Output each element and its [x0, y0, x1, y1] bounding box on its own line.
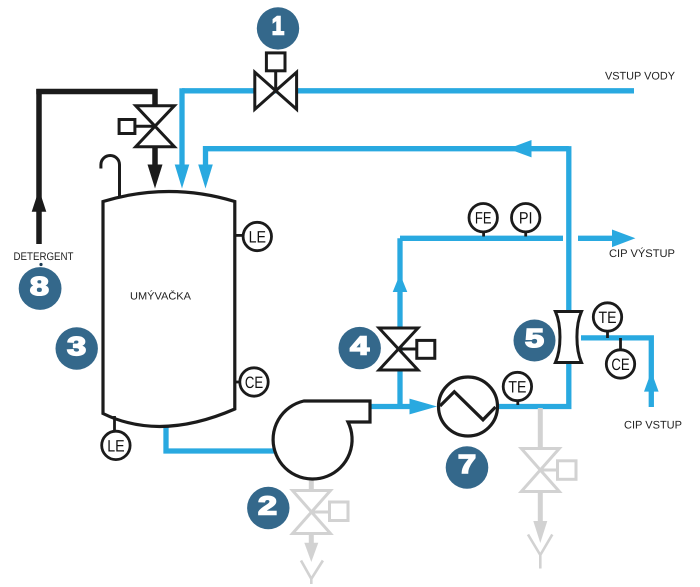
wire: tank outlet to pump — [166, 424, 276, 451]
arrow: gray drain down — [304, 543, 318, 562]
svg-text:CE: CE — [611, 356, 629, 374]
tag 8 — [19, 267, 62, 310]
svg-text:CE: CE — [245, 374, 263, 392]
tag 5 — [514, 320, 556, 362]
svg-text:8: 8 — [30, 271, 49, 301]
valve V4 (CIP branch valve) — [379, 328, 435, 370]
wire: valve V4 branch riser — [397, 238, 402, 409]
wire: gray drain stem below pump — [309, 478, 314, 491]
valve: gray drain valve right — [521, 449, 576, 492]
wire: return line horizontal — [206, 146, 569, 151]
svg-text:5: 5 — [525, 323, 544, 353]
instrument CE on tank — [235, 368, 268, 396]
svg-text:UMÝVAČKA: UMÝVAČKA — [130, 290, 191, 303]
svg-text:7: 7 — [458, 449, 476, 479]
tag 1 — [257, 7, 299, 49]
instrument FE (flow element) — [469, 204, 497, 237]
wire: return line drop to tank — [203, 146, 208, 170]
wire: drop to detergent valve — [152, 89, 158, 105]
wire: detergent riser — [36, 89, 42, 244]
instrument LE top (level element) — [235, 222, 272, 250]
wire: CIP inlet riser — [581, 338, 651, 407]
wire: CIP outlet line right part — [578, 236, 614, 241]
wire: detergent top run — [36, 89, 157, 95]
svg-text:PI: PI — [519, 210, 533, 228]
tag 3 — [55, 327, 97, 369]
arrow: gray right drain down — [533, 521, 547, 543]
valve V1 (water inlet control valve) — [255, 53, 297, 109]
wire: CIP outlet line left part — [400, 236, 563, 241]
svg-text:CIP VÝSTUP: CIP VÝSTUP — [609, 247, 675, 260]
wire: water line drop to tank — [179, 88, 184, 170]
svg-text:4: 4 — [350, 331, 370, 361]
node: dot above tag 8 — [39, 263, 42, 266]
arrow: CIP VSTUP up — [644, 372, 659, 392]
svg-text:1: 1 — [272, 11, 285, 41]
arrow: water into tank — [175, 165, 190, 189]
drain funnel under pump — [301, 561, 323, 585]
pump P2 — [273, 401, 370, 479]
valve: gray drain valve under pump — [293, 491, 349, 534]
svg-text:TE: TE — [508, 379, 526, 397]
drain funnel right — [528, 535, 552, 569]
svg-text:VSTUP VODY: VSTUP VODY — [605, 70, 676, 82]
svg-text:TE: TE — [599, 309, 617, 327]
heat exchanger E7 — [439, 377, 498, 436]
tag 4 — [339, 327, 381, 369]
arrow: return flow left — [508, 140, 532, 157]
svg-text:LE: LE — [107, 437, 124, 455]
tag 2 — [247, 487, 289, 529]
instrument TE at heat exchanger — [503, 372, 531, 405]
svg-text:FE: FE — [475, 210, 492, 228]
valve: detergent dosing valve — [119, 106, 174, 147]
wire: water inlet main line (VSTUP VODY) — [182, 88, 634, 93]
arrow: detergent into tank — [148, 165, 163, 189]
wire: below valve V5 down to heat-exchanger outlet line — [498, 362, 569, 407]
svg-text:LE: LE — [249, 229, 266, 247]
instrument PI (pressure indicator) — [512, 204, 540, 237]
arrow: up in V4 branch — [393, 274, 408, 292]
wire: gray stem below right drain valve — [538, 492, 543, 527]
arrow: into heat exchanger — [410, 399, 438, 415]
wire: detergent valve to tank — [152, 148, 158, 170]
instrument LE bottom — [102, 416, 130, 460]
tank UMYVACKA — [103, 192, 235, 427]
arrow: CIP VYSTUP out — [612, 230, 635, 248]
arrow: detergent up — [32, 190, 47, 212]
tag 7 — [446, 446, 489, 489]
svg-text:2: 2 — [258, 490, 277, 520]
svg-text:3: 3 — [67, 331, 86, 361]
instrument CE at CIP inlet — [606, 338, 634, 378]
wire: riser from return line down to valve V5 — [566, 146, 571, 311]
wire: pump outlet to heat exchanger — [370, 404, 414, 409]
vent hook on tank — [101, 156, 120, 197]
svg-text:DETERGENT: DETERGENT — [14, 251, 74, 263]
arrow: return into tank — [198, 165, 213, 189]
wire: gray drain stem right branch — [538, 408, 543, 449]
wire: gray stem below drain valve — [309, 534, 314, 550]
valve V5 (CIP control element) — [555, 312, 581, 363]
svg-text:CIP VSTUP: CIP VSTUP — [624, 419, 682, 431]
instrument TE at CIP inlet — [593, 303, 621, 338]
